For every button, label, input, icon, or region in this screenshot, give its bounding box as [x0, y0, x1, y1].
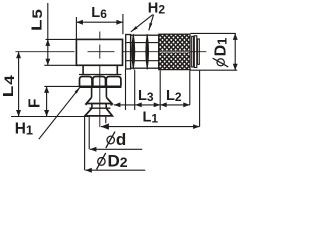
phi d extension: [88, 116, 90, 149]
svg-text:L4: L4: [0, 75, 17, 98]
F dimension line: [46, 86, 48, 116]
L5 leader and dimension line: [47, 3, 49, 65]
end cap bar 2: [194, 36, 197, 68]
sleeve inner line bottom: [126, 60, 159, 62]
L2 right arrow: [183, 102, 190, 107]
label phi d: [106, 130, 126, 149]
vertical centerline: [99, 32, 101, 39]
svg-text:H2: H2: [148, 0, 166, 16]
svg-text:D2: D2: [108, 152, 128, 171]
extension from knurl left: [159, 70, 161, 110]
svg-text:d: d: [116, 130, 126, 149]
barb stem below hex: [91, 88, 93, 98]
L6 dimension line: [76, 21, 123, 23]
L5 bottom extension (body bottom extended): [44, 64, 76, 66]
phi D1 arrows: [233, 33, 238, 40]
label phi D1: [213, 38, 230, 67]
L3 dash at barb widest: [110, 104, 112, 106]
L1 right arrow: [193, 124, 200, 129]
L3 right arrow: [154, 102, 161, 107]
phi D1 bottom extension: [190, 69, 237, 71]
L3 left arrow: [135, 102, 142, 107]
label phi D2: [97, 152, 128, 171]
hex ring 1 (H2) lens: [132, 34, 135, 69]
hex ring 2 (H2) lens: [146, 34, 149, 69]
L1 dimension line: [101, 126, 200, 128]
L5 top extension (body top extended): [46, 38, 77, 40]
L6 left extension: [75, 17, 77, 39]
L2 dimension line: [160, 104, 190, 106]
L4/F bottom extension: [11, 116, 88, 118]
L1 right extension: [199, 70, 201, 126]
L4 dimension line: [18, 52, 20, 117]
extension from knurl right: [189, 70, 191, 105]
hex nut facet left: [80, 77, 93, 87]
svg-text:D1: D1: [213, 38, 230, 57]
phi D1 dimension line: [234, 33, 236, 70]
elbow body: [76, 39, 122, 65]
F top extension (hex bottom extended): [44, 85, 79, 87]
svg-text:H1: H1: [15, 121, 33, 138]
L6 right extension: [122, 14, 124, 34]
svg-text:L1: L1: [143, 110, 159, 126]
hex nut facet middle: [93, 77, 106, 87]
L1 left arrow: [101, 123, 109, 129]
small extension right of barb: [105, 116, 107, 123]
L2 left arrow: [160, 102, 167, 107]
hex nut H1 top edge: [79, 74, 121, 76]
phi d arrow: [90, 147, 97, 152]
F arrows: [44, 86, 49, 93]
knurled nut: [159, 34, 190, 69]
H2 leader 2: [149, 15, 154, 31]
H2 leader 1: [131, 15, 153, 32]
svg-text:F: F: [27, 99, 44, 108]
phi D1 top extension: [190, 32, 235, 34]
sleeve inner line top: [126, 42, 159, 44]
hex nut bottom edge: [79, 86, 121, 89]
end cap bar 1: [192, 36, 194, 67]
phi D2 dimension line: [85, 169, 145, 171]
H2 arrow 2: [149, 23, 153, 31]
phi D2 arrow: [85, 168, 92, 173]
neck below body: [82, 65, 84, 74]
arrow at barb widest: [114, 102, 121, 107]
sleeve outer: [131, 35, 159, 68]
svg-text:L3: L3: [138, 88, 154, 104]
H1 leader: [39, 87, 81, 139]
barb cone 2: [90, 107, 111, 109]
L6 arrows: [76, 20, 83, 25]
barb cone 1: [86, 97, 112, 103]
end cap bar 3: [197, 39, 199, 64]
svg-text:L5: L5: [28, 8, 46, 31]
H2 arrow 1: [131, 26, 138, 32]
L5 arrows: [45, 39, 50, 46]
hex nut facet right: [106, 77, 121, 87]
knurl center seam: [160, 51, 190, 53]
phi d dimension line: [90, 148, 142, 150]
extension from washer left: [125, 69, 127, 110]
horizontal centerline: [15, 51, 74, 53]
dim line from barb to sleeve: [114, 104, 160, 106]
svg-text:L6: L6: [91, 5, 107, 21]
washer at body right: [126, 35, 131, 69]
L4 arrows: [16, 52, 21, 59]
extension from ring 1 right: [134, 70, 136, 110]
phi D2 extension: [84, 116, 86, 170]
svg-text:L2: L2: [166, 88, 182, 104]
barb recess: [91, 104, 93, 109]
H1 arrow: [75, 87, 81, 94]
